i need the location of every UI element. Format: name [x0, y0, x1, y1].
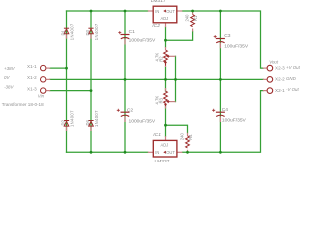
svg-text:1N4007: 1N4007	[94, 23, 99, 40]
svg-text:X1-3: X1-3	[27, 86, 37, 91]
svg-text:-38V: -38V	[4, 84, 15, 89]
svg-text:1N4007: 1N4007	[69, 110, 74, 127]
svg-text:ADJ: ADJ	[161, 16, 169, 21]
svg-text:D4: D4	[85, 119, 90, 125]
svg-text:D1: D1	[60, 29, 65, 35]
svg-text:Transformer 18-0-18: Transformer 18-0-18	[2, 102, 44, 107]
svg-text:C1: C1	[129, 29, 136, 35]
svg-text:X2-2: X2-2	[275, 77, 285, 82]
svg-text:IN: IN	[155, 9, 159, 14]
svg-text:R1: R1	[193, 15, 198, 21]
svg-text:OUT: OUT	[166, 150, 175, 155]
svg-text:0V: 0V	[4, 75, 11, 80]
svg-text:1000uF/35V: 1000uF/35V	[129, 118, 156, 124]
svg-text:C2: C2	[127, 107, 134, 113]
svg-text:X2-3: X2-3	[275, 65, 285, 70]
svg-text:1000uF/35V: 1000uF/35V	[129, 37, 156, 43]
svg-text:Vin: Vin	[38, 94, 45, 99]
svg-text:R2: R2	[158, 56, 163, 62]
svg-text:R4: R4	[188, 134, 193, 140]
svg-text:R3: R3	[158, 97, 163, 103]
svg-text:Vout: Vout	[269, 59, 279, 64]
svg-text:C4: C4	[222, 107, 229, 113]
svg-text:1N4007: 1N4007	[69, 23, 74, 40]
svg-text:IC2: IC2	[152, 23, 160, 29]
svg-text:+38V: +38V	[4, 66, 16, 71]
svg-text:IC1: IC1	[153, 132, 161, 138]
svg-text:+V Out: +V Out	[286, 65, 301, 70]
svg-text:240: 240	[185, 14, 190, 22]
svg-text:100uF/35V: 100uF/35V	[222, 118, 247, 124]
svg-text:D2: D2	[60, 119, 65, 125]
svg-text:X1-1: X1-1	[27, 64, 37, 69]
svg-text:ADJ: ADJ	[161, 142, 169, 147]
svg-text:240: 240	[180, 133, 185, 141]
svg-text:C3: C3	[224, 33, 231, 39]
svg-text:LM337: LM337	[155, 159, 170, 162]
svg-text:100uF/35V: 100uF/35V	[224, 43, 249, 49]
svg-text:D3: D3	[85, 29, 90, 35]
svg-text:LM317: LM317	[151, 0, 166, 4]
svg-text:GND: GND	[286, 76, 297, 81]
svg-text:X1-2: X1-2	[27, 75, 37, 80]
svg-text:-V Out: -V Out	[286, 87, 299, 92]
svg-text:OUT: OUT	[166, 9, 175, 14]
svg-text:1N4007: 1N4007	[94, 110, 99, 127]
svg-text:X2-1: X2-1	[275, 88, 285, 93]
svg-text:IN: IN	[155, 150, 159, 155]
